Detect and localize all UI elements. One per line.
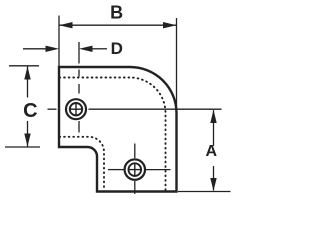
svg-text:A: A — [206, 143, 218, 160]
svg-text:C: C — [23, 100, 37, 122]
svg-text:D: D — [111, 39, 123, 58]
svg-text:B: B — [110, 2, 123, 22]
